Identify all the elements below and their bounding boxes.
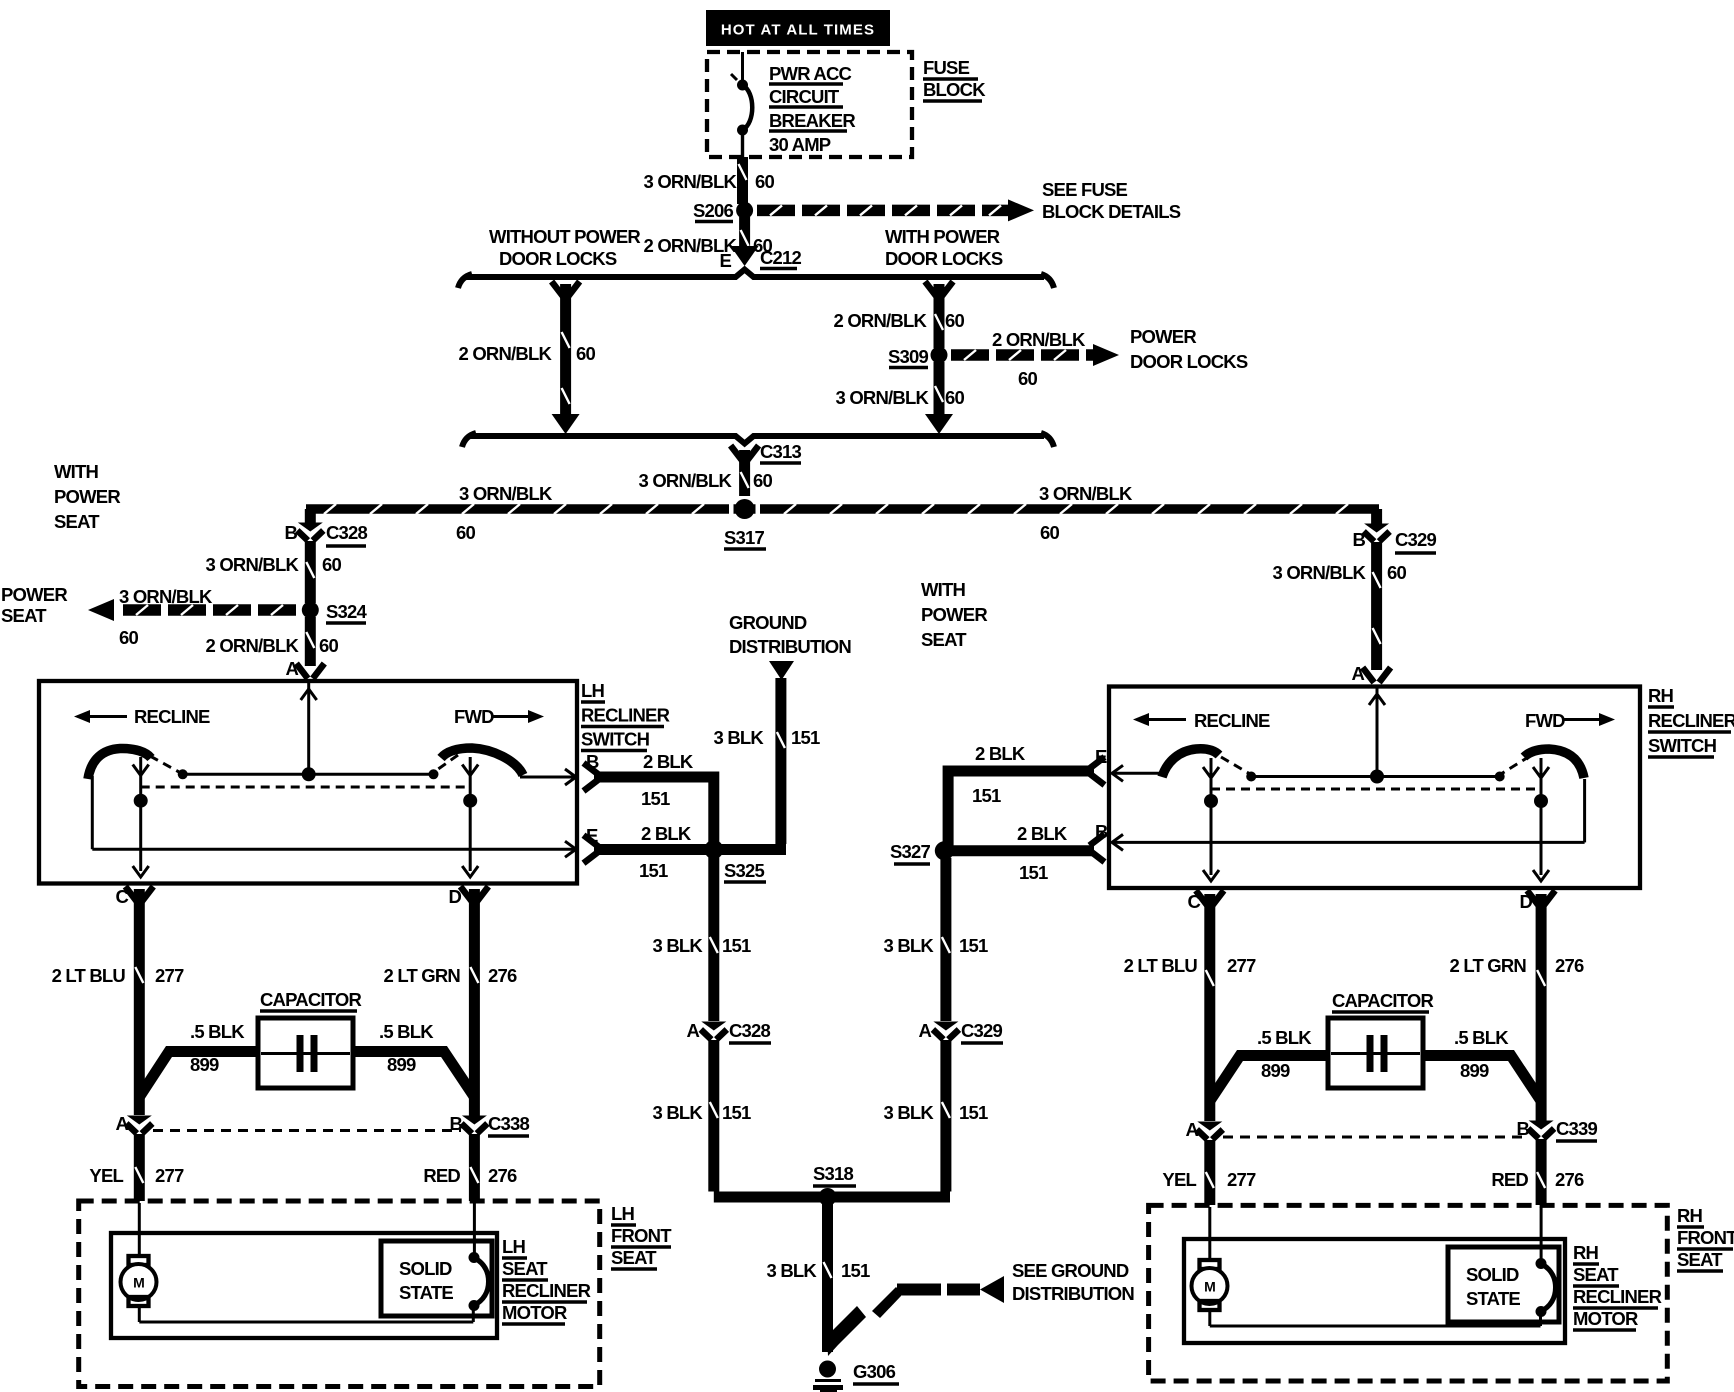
svg-text:DISTRIBUTION: DISTRIBUTION — [1012, 1283, 1134, 1304]
svg-text:3 ORN/BLK: 3 ORN/BLK — [644, 171, 738, 192]
wire: LH D to connector B C338 (2 LT GRN 276) — [469, 889, 480, 1116]
RH recliner motor assembly box — [1184, 1239, 1565, 1343]
RH switch wiper arc (fwd side) — [1524, 749, 1584, 778]
LH switch wiper arc (fwd side) — [441, 748, 523, 775]
svg-text:2 LT BLU: 2 LT BLU — [1124, 955, 1198, 976]
connector pin A (LH seat) — [126, 1116, 152, 1134]
svg-text:.5 BLK: .5 BLK — [379, 1021, 434, 1042]
svg-text:SEAT: SEAT — [1, 605, 47, 626]
svg-text:LH: LH — [611, 1203, 635, 1224]
svg-text:A: A — [918, 1020, 931, 1041]
svg-text:FRONT: FRONT — [611, 1225, 672, 1246]
connector pin C cup — [125, 887, 153, 902]
wire: RH C to capacitor (.5 BLK 899) — [1210, 1056, 1328, 1102]
svg-text:WITH: WITH — [921, 579, 966, 600]
wire: C329 to S318 (3 BLK 151) — [940, 1040, 951, 1192]
connector C329 pin B — [1364, 524, 1390, 542]
svg-text:151: 151 — [1019, 862, 1048, 883]
connector pin A into RH switch — [1363, 668, 1391, 683]
wire: left drop without power door locks — [552, 282, 580, 297]
off-page arrow: S324 to power seat — [88, 599, 296, 621]
svg-text:PWR ACC: PWR ACC — [769, 63, 852, 84]
svg-text:G306: G306 — [853, 1361, 896, 1382]
node S206 — [736, 202, 753, 219]
wire: RH motor return — [1208, 1310, 1211, 1326]
capacitor C-LH symbol — [261, 1052, 350, 1055]
svg-text:CAPACITOR: CAPACITOR — [1332, 990, 1434, 1011]
LH switch wiper arc (recline side) — [88, 748, 151, 779]
svg-text:.5 BLK: .5 BLK — [1454, 1027, 1509, 1048]
connector pin A (RH seat) — [1197, 1122, 1223, 1140]
svg-text:A: A — [1185, 1119, 1198, 1140]
wire: capacitor to LH D (.5 BLK 899) — [353, 1052, 474, 1098]
dashed wiper link left — [150, 756, 179, 772]
svg-text:S317: S317 — [724, 527, 765, 548]
label PWR ACC CIRCUIT BREAKER 30 AMP — [769, 63, 855, 155]
svg-text:151: 151 — [959, 1102, 988, 1123]
svg-text:SWITCH: SWITCH — [1648, 735, 1717, 756]
svg-text:60: 60 — [119, 627, 138, 648]
capacitor C-RH symbol — [1331, 1052, 1420, 1055]
svg-text:C329: C329 — [1395, 529, 1437, 550]
svg-text:RH: RH — [1648, 685, 1674, 706]
svg-text:STATE: STATE — [399, 1282, 453, 1303]
svg-text:M: M — [1204, 1279, 1215, 1295]
wire: breaker to S206 — [737, 157, 748, 204]
svg-text:SEAT: SEAT — [1677, 1249, 1723, 1270]
RH switch wiper arc (recline side) — [1162, 749, 1219, 777]
svg-text:B: B — [1352, 529, 1365, 550]
connector C313 — [731, 446, 759, 461]
wire: S327 to RH switch E (2 BLK 151) — [948, 771, 1094, 846]
RH switch left vertical to pin C — [1210, 758, 1213, 875]
svg-text:BREAKER: BREAKER — [769, 110, 855, 131]
wire: S309 down to lower bus — [934, 362, 945, 418]
svg-text:60: 60 — [945, 310, 964, 331]
wire: S325 down to C328 pin A (3 BLK 151) — [708, 856, 719, 1021]
svg-text:2 LT GRN: 2 LT GRN — [383, 965, 460, 986]
svg-text:151: 151 — [722, 1102, 751, 1123]
power source tag HOT AT ALL TIMES — [706, 10, 890, 46]
dashed connector line — [153, 1129, 461, 1132]
svg-text:FUSE: FUSE — [923, 57, 970, 78]
svg-text:C339: C339 — [1556, 1118, 1598, 1139]
wire: LH switch E to S325 (2 BLK 151) — [594, 844, 708, 855]
solid state module LH — [381, 1241, 492, 1316]
solid state contacts and arc — [469, 1252, 480, 1263]
svg-text:151: 151 — [959, 935, 988, 956]
svg-text:.5 BLK: .5 BLK — [190, 1021, 245, 1042]
wire: RH D to connector B C339 (2 LT GRN 276) — [1536, 894, 1547, 1121]
svg-text:60: 60 — [753, 470, 772, 491]
wire: connector A to LH motor (YEL 277) — [134, 1134, 145, 1201]
svg-text:SWITCH: SWITCH — [581, 729, 650, 750]
svg-text:3 ORN/BLK: 3 ORN/BLK — [1039, 483, 1133, 504]
svg-text:HOT AT ALL TIMES: HOT AT ALL TIMES — [721, 22, 875, 39]
solid state module RH — [1448, 1247, 1559, 1322]
connector C328 pin B — [297, 523, 323, 541]
svg-text:3 BLK: 3 BLK — [884, 935, 935, 956]
node S324 — [302, 602, 319, 619]
node S325 — [704, 840, 723, 859]
svg-text:S325: S325 — [724, 860, 765, 881]
svg-text:60: 60 — [576, 343, 595, 364]
svg-text:3 BLK: 3 BLK — [714, 727, 765, 748]
svg-text:RED: RED — [1491, 1169, 1528, 1190]
svg-text:A: A — [1351, 663, 1364, 684]
svg-text:A: A — [115, 1113, 128, 1134]
svg-text:60: 60 — [322, 554, 341, 575]
RH switch right vertical to pin D — [1540, 758, 1543, 875]
connector pin D cup — [460, 887, 488, 902]
fuse block dashed box — [707, 52, 912, 157]
LH switch left vertical to pin C — [139, 757, 142, 871]
motor M-LH — [121, 1256, 157, 1306]
svg-text:2 LT BLU: 2 LT BLU — [52, 965, 126, 986]
wire: C313 to S317 — [739, 450, 750, 496]
svg-text:S206: S206 — [693, 200, 734, 221]
svg-text:DOOR LOCKS: DOOR LOCKS — [1130, 351, 1248, 372]
svg-text:SEAT: SEAT — [502, 1258, 548, 1279]
svg-text:WITHOUT POWER: WITHOUT POWER — [489, 226, 640, 247]
svg-text:277: 277 — [1227, 1169, 1256, 1190]
wire: LH C to capacitor (.5 BLK 899) — [139, 1052, 258, 1098]
svg-text:60: 60 — [319, 635, 338, 656]
LH switch common contact line — [183, 773, 434, 776]
svg-text:FRONT: FRONT — [1677, 1227, 1734, 1248]
svg-text:2 ORN/BLK: 2 ORN/BLK — [206, 635, 300, 656]
svg-text:E: E — [719, 250, 731, 271]
wire: LH motor return — [138, 1306, 141, 1322]
svg-text:276: 276 — [1555, 955, 1584, 976]
junction dot on contact line — [302, 767, 316, 781]
svg-text:2 ORN/BLK: 2 ORN/BLK — [459, 343, 553, 364]
connector C339 pin B — [1528, 1121, 1554, 1139]
svg-text:30 AMP: 30 AMP — [769, 134, 831, 155]
svg-text:POWER: POWER — [54, 486, 120, 507]
svg-text:3 ORN/BLK: 3 ORN/BLK — [206, 554, 300, 575]
ground G306 — [819, 1361, 836, 1378]
RH switch pin A feed line with up arrow — [1376, 688, 1379, 776]
svg-text:LH: LH — [502, 1236, 526, 1257]
svg-text:277: 277 — [1227, 955, 1256, 976]
RH switch line from pin B — [1583, 779, 1586, 842]
connector pin D cup — [1527, 891, 1555, 906]
svg-text:276: 276 — [488, 965, 517, 986]
wire: into LH motor — [138, 1203, 141, 1258]
wire: C338 to LH solid state (RED 276) — [469, 1134, 480, 1201]
svg-text:STATE: STATE — [1466, 1288, 1520, 1309]
svg-text:WITH POWER: WITH POWER — [885, 226, 1000, 247]
svg-text:SEAT: SEAT — [611, 1247, 657, 1268]
svg-text:3 ORN/BLK: 3 ORN/BLK — [836, 387, 930, 408]
svg-text:RECLINER: RECLINER — [1573, 1286, 1662, 1307]
svg-text:151: 151 — [722, 935, 751, 956]
svg-text:A: A — [285, 658, 298, 679]
connector pin E cup — [1090, 757, 1105, 785]
connector C329 pin A — [933, 1022, 959, 1040]
svg-text:FWD: FWD — [454, 706, 494, 727]
svg-text:.5 BLK: .5 BLK — [1257, 1027, 1312, 1048]
svg-text:2 ORN/BLK: 2 ORN/BLK — [834, 310, 928, 331]
RH switch line from pin E — [1113, 772, 1164, 775]
node S317 — [729, 503, 734, 515]
LH switch line to pin E — [91, 776, 94, 849]
wire: into RH motor — [1208, 1207, 1211, 1262]
svg-text:3 ORN/BLK: 3 ORN/BLK — [1273, 562, 1367, 583]
svg-text:RH: RH — [1573, 1242, 1599, 1263]
svg-text:2 BLK: 2 BLK — [1017, 823, 1068, 844]
capacitor C-RH box — [1328, 1018, 1423, 1088]
svg-text:2 ORN/BLK: 2 ORN/BLK — [992, 329, 1086, 350]
svg-text:276: 276 — [1555, 1169, 1584, 1190]
dashed wiper link right — [434, 755, 458, 772]
svg-text:3 ORN/BLK: 3 ORN/BLK — [459, 483, 553, 504]
connector pin A into LH switch — [296, 664, 324, 679]
svg-text:3 BLK: 3 BLK — [653, 1102, 704, 1123]
svg-text:SEE FUSE: SEE FUSE — [1042, 179, 1128, 200]
wire: capacitor to RH D (.5 BLK 899) — [1423, 1056, 1541, 1102]
wire: C328 to S318 (3 BLK 151) — [708, 1040, 719, 1192]
svg-text:60: 60 — [1040, 522, 1059, 543]
wire: ground distribution to S325 (3 BLK 151) — [775, 678, 786, 844]
svg-text:151: 151 — [841, 1260, 870, 1281]
svg-text:S318: S318 — [813, 1163, 854, 1184]
svg-text:60: 60 — [456, 522, 475, 543]
wire: right drop to S309 — [925, 282, 953, 297]
wire: LH switch B to S325 (2 BLK 151) — [594, 777, 714, 846]
node S327 — [935, 841, 954, 860]
svg-text:899: 899 — [387, 1054, 416, 1075]
wire: connector A to RH motor (YEL 277) — [1204, 1140, 1215, 1205]
svg-text:RECLINER: RECLINER — [502, 1280, 591, 1301]
svg-text:3 BLK: 3 BLK — [653, 935, 704, 956]
svg-text:A: A — [686, 1020, 699, 1041]
svg-text:151: 151 — [791, 727, 820, 748]
svg-text:BLOCK DETAILS: BLOCK DETAILS — [1042, 201, 1181, 222]
wire: LH C to connector A (2 LT BLU 277) — [134, 889, 145, 1115]
svg-text:C338: C338 — [488, 1113, 530, 1134]
svg-text:POWER: POWER — [1, 584, 67, 605]
circuit breaker CB (PWR ACC) — [731, 52, 752, 157]
connector C338 pin B — [461, 1116, 487, 1134]
svg-text:YEL: YEL — [89, 1165, 123, 1186]
svg-text:S327: S327 — [890, 841, 931, 862]
dashed wiper link left — [1221, 757, 1250, 774]
svg-text:276: 276 — [488, 1165, 517, 1186]
wire: S327 to RH switch B (2 BLK 151) — [950, 845, 1094, 856]
svg-text:60: 60 — [1018, 368, 1037, 389]
wire: C328 to S324 — [305, 541, 316, 603]
connector pin B cup — [1090, 834, 1105, 862]
svg-text:RECLINER: RECLINER — [581, 705, 670, 726]
bus: upper door-lock branch — [458, 274, 472, 288]
LH recliner motor assembly box — [111, 1233, 497, 1338]
wire: RED into RH solid state — [1540, 1207, 1543, 1262]
svg-text:POWER: POWER — [921, 604, 987, 625]
junction dot on contact line — [1370, 770, 1384, 784]
LH switch right vertical to pin D — [469, 757, 472, 871]
LH recliner switch U: box — [39, 681, 577, 884]
svg-text:RECLINER: RECLINER — [1648, 710, 1734, 731]
svg-text:S309: S309 — [888, 346, 929, 367]
wire: S318 to ground G306 (3 BLK 151) — [822, 1204, 833, 1352]
connector C328 pin A — [701, 1022, 727, 1040]
svg-text:60: 60 — [945, 387, 964, 408]
RH front seat dashed box — [1149, 1205, 1668, 1381]
svg-text:FWD: FWD — [1525, 710, 1565, 731]
off-page dashed link: see ground distribution — [827, 1276, 1004, 1356]
RH recliner switch U: box — [1109, 687, 1640, 889]
RH switch dashed position line — [1211, 788, 1541, 791]
svg-text:60: 60 — [755, 171, 774, 192]
svg-text:2 BLK: 2 BLK — [975, 743, 1026, 764]
svg-text:899: 899 — [1261, 1060, 1290, 1081]
svg-text:BLOCK: BLOCK — [923, 79, 986, 100]
svg-text:LH: LH — [581, 680, 605, 701]
svg-text:151: 151 — [972, 785, 1001, 806]
svg-text:2 BLK: 2 BLK — [641, 823, 692, 844]
wire: S324 to LH switch pin A — [305, 617, 316, 666]
svg-text:3 BLK: 3 BLK — [884, 1102, 935, 1123]
svg-text:RED: RED — [423, 1165, 460, 1186]
wire: RED into solid state — [473, 1203, 476, 1256]
svg-text:SOLID: SOLID — [399, 1258, 452, 1279]
svg-text:3 ORN/BLK: 3 ORN/BLK — [119, 586, 213, 607]
svg-text:277: 277 — [155, 1165, 184, 1186]
label FUSE BLOCK — [923, 57, 986, 101]
wire: main 3 ORN/BLK feed line through S317 — [306, 504, 1379, 514]
motor M-RH — [1192, 1260, 1228, 1310]
svg-text:M: M — [133, 1275, 144, 1291]
LH front seat dashed box — [79, 1201, 600, 1387]
dashed wiper link right — [1501, 756, 1530, 774]
wire: S327 down to C329 pin A (3 BLK 151) — [940, 858, 951, 1021]
LH switch pin A feed line with up arrow — [307, 683, 310, 774]
svg-text:RH: RH — [1677, 1205, 1703, 1226]
svg-text:151: 151 — [641, 788, 670, 809]
bus: lower door-lock branch — [462, 433, 476, 447]
svg-text:899: 899 — [1460, 1060, 1489, 1081]
svg-text:MOTOR: MOTOR — [1573, 1308, 1638, 1329]
LH switch dashed position line — [141, 786, 470, 789]
svg-text:277: 277 — [155, 965, 184, 986]
dashed connector line — [1223, 1136, 1528, 1139]
svg-text:DISTRIBUTION: DISTRIBUTION — [729, 636, 851, 657]
svg-text:C313: C313 — [760, 441, 802, 462]
svg-text:899: 899 — [190, 1054, 219, 1075]
connector C212 pin E arrow — [731, 246, 759, 266]
wire: S206 to connector C212 — [739, 217, 750, 251]
svg-text:CAPACITOR: CAPACITOR — [260, 989, 362, 1010]
svg-text:SOLID: SOLID — [1466, 1264, 1519, 1285]
wire: C339 to RH solid state (RED 276) — [1536, 1139, 1547, 1205]
svg-text:RECLINE: RECLINE — [1194, 710, 1270, 731]
node S309 — [931, 347, 948, 364]
connector pin C cup — [1196, 891, 1224, 906]
svg-text:WITH: WITH — [54, 461, 99, 482]
svg-text:C328: C328 — [729, 1020, 771, 1041]
svg-text:YEL: YEL — [1162, 1169, 1196, 1190]
wire: RH C to connector A (2 LT BLU 277) — [1204, 894, 1215, 1121]
off-page arrow: S309 to power door locks — [951, 344, 1119, 366]
off-page arrow: S206 to fuse block details — [757, 199, 1034, 221]
svg-text:C212: C212 — [760, 247, 802, 268]
svg-text:C328: C328 — [326, 522, 368, 543]
svg-text:SEE GROUND: SEE GROUND — [1012, 1260, 1129, 1281]
svg-text:60: 60 — [1387, 562, 1406, 583]
solid state contacts and arc — [1536, 1258, 1547, 1269]
svg-text:MOTOR: MOTOR — [502, 1302, 567, 1323]
node S318 — [819, 1188, 837, 1206]
svg-text:CIRCUIT: CIRCUIT — [769, 86, 840, 107]
svg-text:DOOR LOCKS: DOOR LOCKS — [499, 248, 617, 269]
ground distribution source triangle — [769, 661, 794, 680]
svg-text:C329: C329 — [961, 1020, 1003, 1041]
svg-text:151: 151 — [639, 860, 668, 881]
svg-text:3 BLK: 3 BLK — [767, 1260, 818, 1281]
wire: C329 to RH switch pin A — [1371, 542, 1382, 670]
svg-text:DOOR LOCKS: DOOR LOCKS — [885, 248, 1003, 269]
LH switch line to pin B — [520, 776, 574, 779]
svg-text:S324: S324 — [326, 601, 368, 622]
svg-text:SEAT: SEAT — [1573, 1264, 1619, 1285]
svg-text:2 LT GRN: 2 LT GRN — [1449, 955, 1526, 976]
svg-text:2 BLK: 2 BLK — [643, 751, 694, 772]
svg-text:SEAT: SEAT — [54, 511, 100, 532]
connector pin E cup — [584, 835, 599, 863]
svg-text:RECLINE: RECLINE — [134, 706, 210, 727]
svg-text:3 ORN/BLK: 3 ORN/BLK — [639, 470, 733, 491]
svg-text:SEAT: SEAT — [921, 629, 967, 650]
svg-text:B: B — [284, 522, 297, 543]
capacitor C-LH box — [258, 1018, 353, 1088]
RH switch common contact line — [1251, 775, 1500, 778]
svg-text:GROUND: GROUND — [729, 612, 807, 633]
connector pin B cup — [584, 763, 599, 791]
svg-text:POWER: POWER — [1130, 326, 1196, 347]
